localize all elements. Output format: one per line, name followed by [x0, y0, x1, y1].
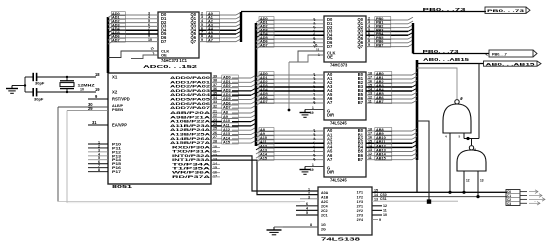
wire tick U3 Q0 to bus — [408, 17, 413, 20]
wire bus tick U5 in 7 — [256, 160, 260, 163]
wire U4 B3 out — [366, 86, 395, 88]
pin P04/AD4 35 — [211, 94, 222, 96]
wire U4 B2 out — [366, 82, 395, 84]
wire U5 B5 out — [366, 151, 395, 153]
wire U4 B5 out — [366, 94, 395, 96]
wire PSEN to decoder — [58, 201, 305, 203]
wire AD3 to U4 A3 — [259, 86, 324, 88]
wire tick Q0 to bus — [236, 12, 241, 15]
wire A12 to bus — [251, 127, 256, 130]
bus bar left AD bus — [107, 17, 110, 73]
pin P01/AD1 38 — [211, 81, 222, 83]
pin U6 G2B enable — [283, 226, 318, 228]
wire bus to PB flag mid — [413, 53, 489, 55]
wire tick Q3 to bus — [236, 24, 241, 27]
svg-text:OE: OE — [327, 55, 333, 60]
wire tick U5 B0 to bus — [412, 128, 417, 131]
svg-text:D7: D7 — [161, 39, 167, 44]
svg-text:A15: A15 — [260, 157, 267, 161]
pin EA/VPP 31 — [88, 124, 108, 126]
wire U2 Q5 out — [199, 33, 236, 35]
ground U6 — [267, 227, 282, 235]
wire U5 B0 out — [366, 130, 395, 132]
wire bus tick U4 in 6 — [256, 99, 260, 102]
svg-text:AB0. . .AB15: AB0. . .AB15 — [423, 57, 470, 62]
wire AD4 to U4 A4 — [259, 90, 324, 92]
wire U3 Q1 out — [366, 23, 395, 25]
wire bus tick AD4 — [108, 30, 112, 33]
wire AD1 to U2 D1 — [111, 18, 158, 20]
wire tick Q5 to bus — [236, 31, 241, 34]
pin P21/A9 22 — [211, 116, 222, 118]
wire A11 to bus — [251, 123, 256, 126]
node gate link junction — [466, 137, 469, 140]
wire tick U4 B3 to bus — [412, 84, 417, 87]
wire gate1 output to bus — [417, 68, 457, 99]
wire bus tick AD3 — [108, 26, 112, 29]
svg-text:A7: A7 — [208, 39, 213, 43]
wire bus to PB flag top — [241, 11, 486, 13]
svg-text:19: 19 — [310, 168, 314, 172]
wire A7 to U3 D7 — [259, 46, 324, 48]
svg-text:AD7: AD7 — [112, 39, 120, 43]
wire A8 to U5 A0 — [259, 130, 324, 132]
pin P06/AD6 33 — [211, 103, 222, 105]
wire U2 Q3 out — [199, 25, 236, 27]
svg-text:PB0. . .7: PB0. . .7 — [492, 53, 507, 57]
svg-text:AB15: AB15 — [376, 157, 386, 161]
wire bus tick U5 in 2 — [256, 139, 260, 142]
gate U7B NAND — [457, 150, 486, 171]
pin U6 C select — [300, 198, 318, 200]
svg-text:13: 13 — [374, 198, 378, 202]
pin P17 8 — [88, 171, 108, 173]
wire AD2 to U4 A2 — [259, 82, 324, 84]
wire bus tick to A1 label — [256, 24, 260, 27]
wire bus tick U4 in 7 — [256, 103, 260, 106]
wire AB bus flag — [417, 63, 484, 65]
wire tick U3 Q6 to bus — [408, 40, 413, 43]
pin ALE/P 30 — [58, 106, 108, 108]
svg-text:Q7: Q7 — [358, 44, 364, 49]
wire U2 Q6 out — [199, 37, 236, 39]
wire tick Q1 to bus — [236, 16, 241, 19]
svg-text:ADC0. . .152: ADC0. . .152 — [143, 64, 198, 69]
wire Y1 to connector — [372, 196, 507, 198]
wire U5 B7 out — [366, 159, 395, 161]
svg-text:12: 12 — [383, 204, 387, 208]
wire AD7 to U4 A7 — [259, 102, 324, 104]
pin P16 7 — [88, 167, 108, 169]
pin P07/AD7 32 — [211, 107, 222, 109]
wire bus bar extension — [416, 160, 418, 192]
pin U6 row5 — [296, 209, 318, 211]
svg-text:1G: 1G — [321, 223, 326, 227]
wire U3 OE route — [289, 55, 324, 62]
decoder U6 74LS138 body — [318, 187, 372, 235]
wire bus tick AD2 — [108, 23, 112, 26]
wire U2 CLK to ALE — [108, 51, 158, 58]
wire AD6 to U2 D6 — [111, 37, 158, 39]
pin P26/A14 27 — [211, 138, 222, 140]
wire AD5 to U2 D5 — [111, 33, 158, 35]
svg-text:8: 8 — [98, 168, 100, 172]
svg-text:AD7: AD7 — [223, 106, 231, 110]
wire AD6 to U4 A6 — [259, 98, 324, 100]
wire bus tick U4 in 3 — [256, 87, 260, 90]
wire A10 to U5 A2 — [259, 138, 324, 140]
wire U4 B0 out — [366, 74, 395, 76]
wire AD7 to U2 D7 — [111, 41, 158, 43]
wire AD3 to U2 D3 — [111, 25, 158, 27]
wire bus tick to A7 label — [256, 47, 260, 50]
svg-text:30pF: 30pF — [35, 81, 45, 86]
wire gate2 output bubble up — [471, 139, 473, 146]
wire tick U4 B4 to bus — [412, 88, 417, 91]
wire A13 to bus — [251, 132, 256, 135]
wire AD6 to bus — [251, 101, 256, 104]
wire U2 Q7 out — [199, 41, 236, 43]
wire tick U5 B3 to bus — [412, 141, 417, 144]
wire U5 B6 out — [366, 155, 395, 157]
wire bus tick U4 in 4 — [256, 91, 260, 94]
svg-text:74HC373 1C1: 74HC373 1C1 — [161, 58, 188, 63]
wire A9 to U5 A1 — [259, 134, 324, 136]
svg-text:29: 29 — [88, 106, 93, 111]
wire PSEN down — [66, 111, 68, 203]
svg-text:PB0. . .73: PB0. . .73 — [423, 49, 460, 54]
wire bus tick AD0 — [108, 15, 112, 18]
wire A12 to U5 A4 — [259, 146, 324, 148]
pin Y4 stub — [372, 209, 382, 211]
svg-text:AB7: AB7 — [376, 100, 384, 104]
svg-text:PB7: PB7 — [376, 44, 383, 48]
pin P14 5 — [88, 159, 108, 161]
pin P25/A13 26 — [211, 134, 222, 136]
node ALE chain junction — [288, 109, 291, 112]
wire bus tick AD5 — [108, 34, 112, 37]
wire A8 to bus — [251, 110, 256, 113]
wire bus tick U4 in 5 — [256, 95, 260, 98]
svg-text:6: 6 — [306, 202, 308, 206]
svg-text:8: 8 — [310, 223, 312, 227]
svg-text:32: 32 — [213, 104, 217, 108]
wire tick U5 B4 to bus — [412, 145, 417, 148]
gate U7A NAND — [443, 104, 471, 133]
wire A1 to U3 D1 — [259, 23, 324, 25]
wire U2 Q1 out — [199, 18, 236, 20]
wire bus tick U4 in 1 — [256, 79, 260, 82]
node XTAL-GND junction — [24, 84, 26, 86]
pin P05/AD5 34 — [211, 99, 222, 101]
svg-text:D7: D7 — [327, 44, 333, 49]
svg-text:A1B: A1B — [321, 196, 329, 200]
svg-text:74LS138: 74LS138 — [321, 237, 361, 242]
wire tick U5 B5 to bus — [412, 149, 417, 152]
wire bus tick AD6 — [108, 38, 112, 41]
wire X2 right segment — [37, 91, 96, 93]
wire vertical cap common — [24, 77, 26, 92]
wire tick U3 Q4 to bus — [408, 32, 413, 35]
wire bus tick U5 in 4 — [256, 147, 260, 150]
wire tick U4 B7 to bus — [412, 100, 417, 103]
svg-text:17: 17 — [213, 175, 217, 179]
wire U2 Q0 out — [199, 14, 236, 16]
pin P24/A12 25 — [211, 129, 222, 131]
svg-text:AB0. . .AB15: AB0. . .AB15 — [486, 62, 535, 66]
wire tick U3 Q7 to bus — [408, 44, 413, 47]
svg-text:5: 5 — [306, 211, 308, 215]
connector flag PB0...7 mid — [486, 50, 538, 57]
wire bus tick AD7 — [108, 42, 112, 45]
svg-text:PB0. . .73: PB0. . .73 — [487, 8, 526, 13]
svg-text:11: 11 — [368, 99, 372, 103]
svg-text:15: 15 — [374, 189, 378, 193]
wire tick U4 B2 to bus — [412, 80, 417, 83]
wire tick U5 B2 to bus — [412, 136, 417, 139]
wire bus tick to A6 label — [256, 43, 260, 46]
wire A9 to bus — [251, 115, 256, 118]
svg-text:11: 11 — [383, 209, 387, 213]
pin U6 row4 — [296, 205, 318, 207]
svg-text:CS1: CS1 — [380, 197, 387, 201]
pin P27/A15 28 — [211, 142, 222, 144]
pin P11 2 — [88, 147, 108, 149]
wire tick U4 B1 to bus — [412, 76, 417, 79]
svg-text:8051: 8051 — [112, 184, 133, 189]
latch U2 74HC373 body — [158, 12, 199, 58]
ground U4 — [300, 110, 311, 118]
wire bus tick U5 in 5 — [256, 152, 260, 155]
pin Y3 stub — [372, 205, 382, 207]
svg-text:11: 11 — [368, 156, 372, 160]
svg-text:2Y3: 2Y3 — [357, 213, 363, 217]
wire tick U3 Q1 to bus — [408, 21, 413, 24]
svg-text:2Y4: 2Y4 — [357, 218, 363, 222]
wire ground to node — [12, 85, 25, 87]
wire AD1 to U4 A1 — [259, 78, 324, 80]
wire INT1 to decoder select B — [211, 160, 318, 195]
wire ALE down — [57, 107, 59, 202]
svg-text:2C4: 2C4 — [321, 205, 328, 209]
wire AD0 to bus — [251, 75, 256, 78]
svg-text:10: 10 — [148, 38, 152, 42]
pin P13 4 — [88, 155, 108, 157]
wire bus tick to A0 label — [256, 20, 260, 23]
svg-text:2C1: 2C1 — [321, 214, 328, 218]
connector J1 chip selects — [506, 190, 520, 206]
svg-text:2C2: 2C2 — [321, 209, 328, 213]
wire U4 B4 out — [366, 90, 395, 92]
pin P20/A8 21 — [211, 112, 222, 114]
svg-text:4: 4 — [306, 207, 308, 211]
wire U5 B1 out — [366, 134, 395, 136]
bus bar mid AD/A bus — [255, 23, 258, 146]
svg-text:13: 13 — [480, 179, 484, 183]
svg-text:12: 12 — [466, 179, 470, 183]
wire Y2 — [372, 200, 458, 202]
svg-text:X2: X2 — [112, 90, 118, 95]
svg-text:A7: A7 — [327, 100, 333, 105]
wire tick Q2 to bus — [236, 20, 241, 23]
svg-text:19: 19 — [310, 111, 314, 115]
wire A2 to U3 D2 — [259, 27, 324, 29]
connector flag AB0...AB15 — [484, 61, 542, 66]
wire A3 to U3 D3 — [259, 30, 324, 32]
svg-text:PSEN: PSEN — [112, 107, 123, 112]
wire gate1 inB — [463, 133, 465, 139]
wire U3 Q2 out — [366, 27, 395, 29]
wire bus tick U5 in 1 — [256, 135, 260, 138]
svg-text:RST/VPD: RST/VPD — [112, 97, 130, 102]
wire tick U3 Q5 to bus — [408, 36, 413, 39]
ground U5 — [300, 167, 311, 175]
node gate2 inB junction — [476, 195, 479, 198]
wire AD7 to bus — [251, 105, 256, 108]
svg-text:P17: P17 — [112, 169, 122, 174]
svg-text:OE: OE — [161, 52, 167, 57]
svg-text:Q7: Q7 — [191, 39, 197, 44]
wire bus tick to A4 label — [256, 35, 260, 38]
capacitor C1 30pF — [33, 73, 36, 81]
bus bar U2 out — [240, 12, 242, 42]
svg-text:74HC373: 74HC373 — [330, 63, 348, 68]
pin RST/VPD 9 — [88, 98, 108, 100]
wire tick U5 B7 to bus — [412, 157, 417, 160]
svg-text:2Y2: 2Y2 — [357, 209, 363, 213]
wire AD5 to U4 A5 — [259, 94, 324, 96]
wire AD2 to bus — [251, 84, 256, 87]
wire tick U4 B6 to bus — [412, 96, 417, 99]
wire U5 B4 out — [366, 146, 395, 148]
svg-text:DIR: DIR — [327, 113, 334, 118]
svg-text:PB0. . .73: PB0. . .73 — [423, 7, 467, 12]
wire U3 Q7 out — [366, 46, 395, 48]
pin Y6 stub — [372, 219, 378, 221]
wire U5 G to gnd — [305, 166, 324, 168]
wire U4 B7 out — [366, 102, 395, 104]
wire tick Q4 to bus — [236, 27, 241, 30]
wire A13 to U5 A5 — [259, 151, 324, 153]
crystal Y1 12MHZ — [60, 77, 74, 92]
bus bar U3 out — [412, 23, 414, 54]
svg-text:X1: X1 — [112, 75, 118, 80]
wire Y0 to connector — [372, 191, 507, 193]
pin Y5 stub — [372, 214, 382, 216]
buffer U5 74LS245 body — [324, 128, 366, 177]
latch U3 74HC373 body — [324, 16, 366, 62]
wire U4 B1 out — [366, 78, 395, 80]
wire A4 to U3 D4 — [259, 34, 324, 36]
svg-text:..: .. — [534, 199, 536, 203]
wire AD5 to bus — [251, 97, 256, 100]
pin PSEN 29 — [67, 110, 108, 112]
wire U2 Q4 out — [199, 29, 236, 31]
wire AD2 to U2 D2 — [111, 22, 158, 24]
wire gate1 inA down to line — [449, 133, 451, 192]
wire node link — [464, 138, 479, 140]
capacitor C2 30pF — [33, 88, 36, 96]
wire U3 Q5 out — [366, 38, 395, 40]
connector J1 pin ticks — [520, 192, 527, 204]
wire U2 OE — [131, 55, 158, 59]
wire bus tick U5 in 0 — [256, 131, 260, 134]
svg-text:3: 3 — [308, 195, 310, 199]
pin P10 1 — [88, 143, 108, 145]
wire U3 Q3 out — [366, 30, 395, 32]
wire AD4 to bus — [251, 92, 256, 95]
wire A14 to bus — [251, 136, 256, 139]
pin P15 6 — [88, 163, 108, 165]
svg-text:74LS245: 74LS245 — [330, 178, 347, 183]
svg-text:14: 14 — [374, 193, 378, 197]
wire tick U3 Q2 to bus — [408, 25, 413, 28]
wire AD0 to U2 D0 — [111, 14, 158, 16]
svg-text:DIR: DIR — [327, 170, 334, 175]
wire U3 Q0 out — [366, 19, 395, 21]
mcu U1 8051 body — [108, 73, 211, 184]
svg-text:2G: 2G — [321, 228, 326, 232]
svg-text:10: 10 — [383, 213, 387, 217]
wire gate2 inA down — [463, 171, 465, 192]
wire tick Q6 to bus — [236, 35, 241, 38]
wire A14 to U5 A6 — [259, 155, 324, 157]
wire A15 to U5 A7 — [259, 159, 324, 161]
svg-text:74LS245: 74LS245 — [330, 121, 347, 126]
connector J1 arrows — [529, 190, 545, 205]
wire A11 to U5 A3 — [259, 142, 324, 144]
svg-text:10: 10 — [80, 88, 84, 92]
svg-text:31: 31 — [92, 120, 97, 125]
wire bus to gate feed — [417, 121, 429, 202]
wire AD3 to bus — [251, 88, 256, 91]
wire bus tick U5 in 6 — [256, 156, 260, 159]
pin P00/AD0 39 — [211, 77, 222, 79]
connector flag PB0...7 top — [485, 7, 530, 13]
pin P02/AD2 37 — [211, 86, 222, 88]
wire tick U3 Q3 to bus — [408, 29, 413, 32]
svg-text:B7: B7 — [358, 100, 364, 105]
svg-text:RD/P37A: RD/P37A — [172, 174, 210, 179]
wire A0 to U3 D0 — [259, 19, 324, 21]
wire A6 to U3 D6 — [259, 42, 324, 44]
wire A5 to U3 D5 — [259, 38, 324, 40]
wire U5 B2 out — [366, 138, 395, 140]
wire tick U5 B6 to bus — [412, 153, 417, 156]
svg-text:B7: B7 — [358, 157, 364, 162]
wire tick U4 B5 to bus — [412, 92, 417, 95]
bus bar right out — [416, 60, 419, 160]
pin P03/AD3 36 — [211, 90, 222, 92]
wire tick U5 B1 to bus — [412, 132, 417, 135]
buffer U4 74LS245 body — [324, 72, 366, 120]
wire AD4 to U2 D4 — [111, 29, 158, 31]
wire ALE chain down — [288, 62, 290, 110]
wire U4 G to gnd — [305, 109, 324, 111]
wire U3 CLK route — [298, 51, 324, 62]
wire bus tick AD1 — [108, 19, 112, 22]
wire U5 B3 out — [366, 142, 395, 144]
pin P22/A10 23 — [211, 121, 222, 123]
pin U6 row6 — [296, 214, 318, 216]
wire A10 to bus — [251, 119, 256, 122]
svg-text:9: 9 — [379, 218, 381, 222]
wire bus tick to A5 label — [256, 39, 260, 42]
svg-text:2Y1: 2Y1 — [357, 204, 363, 208]
svg-text:1Y1: 1Y1 — [357, 191, 363, 195]
wire bus tick to A3 label — [256, 31, 260, 34]
svg-text:9: 9 — [368, 43, 370, 47]
